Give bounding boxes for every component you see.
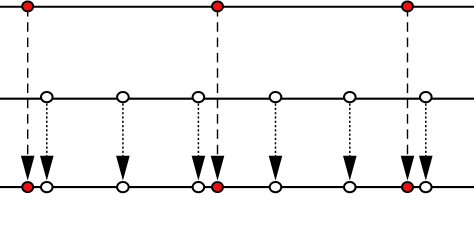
bottom red sample 1: [22, 182, 33, 192]
top red sample 1: [22, 1, 33, 11]
top red sample 3: [402, 1, 413, 11]
dotted projection line 5: [349, 104, 351, 157]
bottom white sample 2: [117, 182, 129, 192]
dashed projection line 2: [217, 7, 219, 156]
dotted projection line 3: [197, 104, 199, 157]
bottom white sample 5: [344, 182, 356, 192]
arrowhead dotted 4: [269, 156, 283, 181]
middle white sample 3: [193, 92, 205, 102]
dashed projection line 1: [27, 7, 29, 156]
middle white sample 6: [420, 92, 432, 102]
bottom white sample 1: [41, 182, 53, 192]
dotted projection line 1: [46, 104, 48, 157]
arrowhead dashed 2: [211, 156, 225, 181]
bottom white sample 3: [193, 182, 205, 192]
arrowhead dotted 6: [419, 156, 433, 181]
dotted projection line 4: [275, 104, 277, 157]
top red sample 2: [212, 1, 223, 11]
arrowhead dotted 5: [343, 156, 357, 181]
bottom timeline: [0, 186, 474, 188]
dashed projection line 3: [407, 7, 409, 156]
arrowhead dashed 3: [401, 156, 415, 181]
bottom white sample 4: [270, 182, 282, 192]
bottom white sample 6: [420, 182, 432, 192]
arrowhead dashed 1: [21, 156, 35, 181]
arrowhead dotted 2: [116, 156, 130, 181]
top timeline: [0, 6, 474, 8]
middle white sample 5: [344, 92, 356, 102]
middle timeline: [0, 98, 474, 100]
dotted projection line 6: [425, 104, 427, 157]
arrowhead dotted 1: [40, 156, 54, 181]
middle white sample 4: [270, 92, 282, 102]
dotted projection line 2: [122, 104, 124, 157]
bottom red sample 2: [212, 182, 223, 192]
bottom red sample 3: [402, 182, 413, 192]
arrowhead dotted 3: [192, 156, 206, 181]
middle white sample 2: [117, 92, 129, 102]
middle white sample 1: [41, 92, 53, 102]
